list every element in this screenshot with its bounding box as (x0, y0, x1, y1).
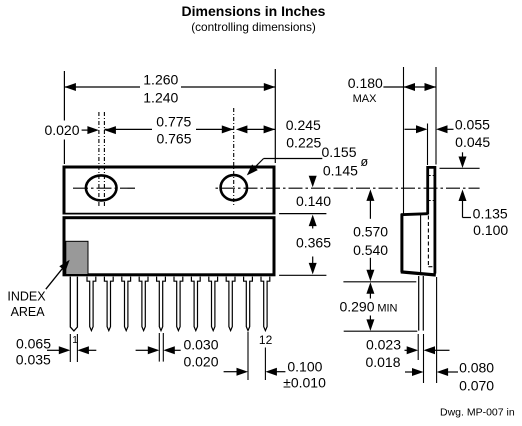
svg-text:AREA: AREA (11, 305, 46, 319)
svg-text:0.023: 0.023 (366, 337, 401, 353)
svg-text:0.365: 0.365 (296, 235, 331, 251)
svg-text:Dwg. MP-007 in: Dwg. MP-007 in (440, 407, 515, 419)
svg-text:0.030: 0.030 (183, 336, 218, 352)
svg-text:0.145: 0.145 (323, 163, 358, 179)
svg-text:0.020: 0.020 (44, 122, 79, 138)
svg-text:0.070: 0.070 (459, 378, 494, 394)
svg-text:0.055: 0.055 (455, 117, 490, 133)
svg-text:0.775: 0.775 (156, 114, 191, 130)
svg-text:12: 12 (259, 333, 273, 347)
svg-text:0.045: 0.045 (455, 134, 490, 150)
svg-text:1.240: 1.240 (143, 89, 178, 105)
svg-text:1.260: 1.260 (143, 72, 178, 88)
svg-text:0.100: 0.100 (473, 222, 508, 238)
svg-text:0.540: 0.540 (353, 242, 388, 258)
svg-text:0.035: 0.035 (16, 352, 51, 368)
svg-text:0.225: 0.225 (286, 134, 321, 150)
svg-text:(controlling dimensions): (controlling dimensions) (191, 20, 316, 34)
svg-text:0.155: 0.155 (321, 144, 356, 160)
svg-text:0.765: 0.765 (156, 130, 191, 146)
svg-text:Dimensions in Inches: Dimensions in Inches (182, 3, 326, 19)
svg-text:MAX: MAX (353, 93, 378, 105)
svg-text:0.180: 0.180 (348, 75, 383, 91)
svg-text:0.290: 0.290 (339, 299, 374, 315)
svg-text:0.140: 0.140 (296, 193, 331, 209)
svg-text:ø: ø (360, 155, 368, 169)
svg-text:±0.010: ±0.010 (283, 374, 326, 390)
svg-text:MIN: MIN (377, 303, 397, 315)
svg-text:0.080: 0.080 (459, 360, 494, 376)
svg-text:0.100: 0.100 (287, 358, 322, 374)
svg-text:0.570: 0.570 (353, 224, 388, 240)
svg-text:0.065: 0.065 (16, 336, 51, 352)
svg-text:INDEX: INDEX (7, 289, 46, 303)
svg-text:0.245: 0.245 (286, 117, 321, 133)
svg-text:0.018: 0.018 (365, 354, 400, 370)
svg-text:0.135: 0.135 (473, 205, 508, 221)
svg-text:0.020: 0.020 (183, 353, 218, 369)
svg-text:1: 1 (72, 335, 78, 346)
